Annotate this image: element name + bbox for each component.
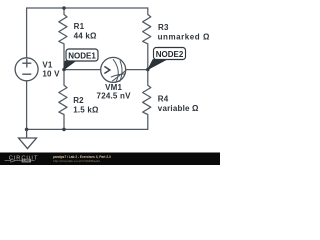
label R4 value <box>158 95 199 114</box>
svg-text:R1: R1 <box>74 22 85 31</box>
svg-text:10 V: 10 V <box>42 70 60 79</box>
resistor R2 <box>59 70 67 130</box>
wire left vertical upper (top rail to V1) <box>26 8 28 58</box>
junction dot bottom rail / R2 <box>62 128 66 132</box>
svg-text:variable Ω: variable Ω <box>158 104 199 113</box>
svg-text:1.5 kΩ: 1.5 kΩ <box>73 105 99 114</box>
resistor R4 <box>143 70 151 130</box>
node NODE2 <box>146 48 186 72</box>
svg-text:44 kΩ: 44 kΩ <box>74 32 97 41</box>
voltmeter VM1 <box>101 57 126 82</box>
voltage source V1 <box>15 58 38 81</box>
svg-text:http://circuitlab.com/c/7s8dhB: http://circuitlab.com/c/7s8dhBaa6x <box>53 159 101 163</box>
label VM1 value <box>97 83 132 100</box>
node NODE1 <box>62 49 98 71</box>
ground <box>19 129 37 148</box>
label V1 value <box>42 61 60 79</box>
svg-text:unmarked Ω: unmarked Ω <box>158 33 210 42</box>
label R2 value <box>73 96 99 114</box>
svg-text:LAB: LAB <box>23 159 30 163</box>
svg-text:724.5 nV: 724.5 nV <box>97 91 132 100</box>
resistor R1 <box>59 8 67 70</box>
wire voltmeter to node2 <box>126 69 148 71</box>
junction dot top rail / R1 <box>62 6 66 10</box>
wire bottom rail <box>27 128 148 130</box>
label R1 value <box>74 22 97 40</box>
junction dot bottom rail / ground <box>25 128 29 132</box>
svg-text:V1: V1 <box>42 61 53 70</box>
svg-text:R3: R3 <box>158 23 169 32</box>
svg-text:R2: R2 <box>73 96 84 105</box>
svg-text:R4: R4 <box>158 95 169 104</box>
footer bar <box>0 153 220 166</box>
label R3 value <box>158 23 210 41</box>
resistor R3 <box>143 8 151 70</box>
wire left vertical lower (V1 to bottom rail) <box>26 81 28 129</box>
wire node1 to voltmeter <box>64 69 101 71</box>
wire top rail <box>27 7 148 9</box>
svg-text:NODE1: NODE1 <box>68 51 96 60</box>
svg-text:NODE2: NODE2 <box>156 50 184 59</box>
